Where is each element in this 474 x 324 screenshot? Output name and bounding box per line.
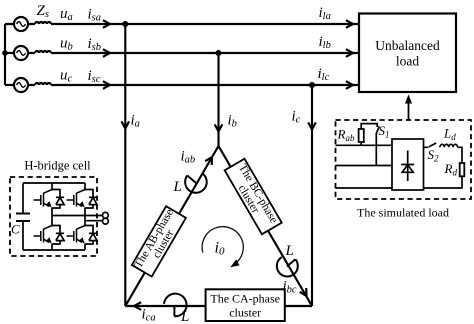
wire phase a line bbox=[51, 23, 359, 25]
inductor L_d bbox=[440, 144, 458, 147]
svg-text:load: load bbox=[396, 54, 419, 69]
svg-text:L: L bbox=[285, 243, 294, 259]
inductor L on side CA bbox=[164, 294, 187, 317]
transistor Q2 bbox=[34, 226, 53, 245]
source Va bbox=[14, 17, 28, 31]
node neutral junction bbox=[2, 50, 8, 56]
wire phase c line bbox=[51, 84, 359, 86]
transistor Q3 bbox=[67, 190, 86, 209]
cluster box BC bbox=[225, 159, 282, 235]
wire source b leads bbox=[5, 52, 35, 54]
svg-text:The CA-phase: The CA-phase bbox=[210, 292, 280, 306]
wire phase c drop bbox=[311, 85, 313, 306]
load box Unbalanced load bbox=[359, 14, 456, 93]
svg-text:cluster: cluster bbox=[229, 306, 261, 320]
arrow i_bc bbox=[300, 288, 307, 296]
svg-text:L: L bbox=[180, 309, 189, 324]
wire delta side CA bbox=[125, 305, 312, 307]
capacitor C bbox=[16, 214, 30, 222]
wire dc top rail bbox=[23, 182, 85, 184]
node phase a tap bbox=[122, 21, 128, 27]
wire delta side AB bbox=[125, 146, 218, 306]
wire phase a drop bbox=[124, 24, 126, 306]
wire source a leads bbox=[5, 23, 35, 25]
simulated load dashed enclosure bbox=[336, 120, 472, 199]
arrow i_sb bbox=[103, 49, 110, 57]
arrow i_ca bbox=[134, 302, 141, 310]
wire dc bottom rail bbox=[23, 249, 85, 251]
svg-text:C: C bbox=[11, 222, 20, 237]
switch S2 bbox=[424, 143, 437, 147]
node phase c tap bbox=[309, 82, 315, 88]
svg-text:H-bridge cell: H-bridge cell bbox=[24, 159, 91, 173]
transistor Q1 bbox=[34, 190, 53, 209]
svg-text:The simulated load: The simulated load bbox=[357, 206, 449, 220]
wire right leg bbox=[84, 183, 86, 250]
arrow i_la bbox=[346, 20, 353, 28]
wire return bbox=[424, 176, 463, 188]
svg-text:L: L bbox=[173, 179, 182, 195]
diode D1 bbox=[52, 190, 64, 209]
wire neutral bus bbox=[4, 24, 6, 85]
wire output A bbox=[52, 215, 103, 217]
node phase b tap bbox=[216, 50, 222, 56]
wire to R_d bbox=[458, 147, 463, 163]
arrow i_a bbox=[122, 121, 130, 128]
source Vb bbox=[14, 46, 28, 60]
cluster box AB bbox=[132, 206, 186, 276]
arrow i_lc bbox=[346, 81, 353, 89]
arrow i_sa bbox=[103, 20, 110, 28]
arrow to unbalanced load bbox=[408, 100, 410, 120]
diode D4 bbox=[85, 226, 97, 245]
wire phase b drop bbox=[217, 53, 219, 146]
rectifier bridge bbox=[392, 139, 424, 190]
wire sim line 3 bbox=[336, 187, 393, 189]
arrow i_lb bbox=[346, 49, 353, 57]
cluster box CA bbox=[206, 289, 285, 321]
diode D2 bbox=[52, 226, 64, 245]
resistor R_d bbox=[460, 163, 465, 176]
source Vc bbox=[14, 78, 28, 92]
terminal A bbox=[103, 212, 109, 218]
H-bridge dashed enclosure bbox=[10, 177, 97, 256]
arrow i_c bbox=[308, 122, 316, 129]
svg-text:Unbalanced: Unbalanced bbox=[375, 38, 440, 53]
inductor Zs phase a bbox=[35, 22, 51, 24]
switch S1 bbox=[376, 126, 379, 133]
wire left leg bbox=[51, 183, 53, 250]
resistor R_ab bbox=[360, 142, 362, 145]
wire sim line 1 bbox=[336, 144, 393, 146]
wire phase b line bbox=[51, 52, 359, 54]
wire output B bbox=[85, 220, 103, 222]
arrow i_ab bbox=[205, 157, 212, 165]
transistor Q4 bbox=[67, 226, 86, 245]
arrow i_b bbox=[215, 124, 223, 131]
inductor Zs phase c bbox=[35, 83, 51, 85]
inductor Zs phase b bbox=[35, 51, 51, 53]
inductor L on side AB bbox=[185, 174, 207, 193]
diode D3 bbox=[85, 190, 97, 209]
current loop i0 bbox=[202, 227, 243, 264]
arrow i_sc bbox=[103, 81, 110, 89]
terminal B bbox=[103, 218, 109, 224]
wire sim line 2 bbox=[336, 165, 393, 167]
wire delta side BC bbox=[219, 146, 313, 306]
inductor L on side BC bbox=[277, 257, 298, 276]
wire source c leads bbox=[5, 84, 35, 86]
